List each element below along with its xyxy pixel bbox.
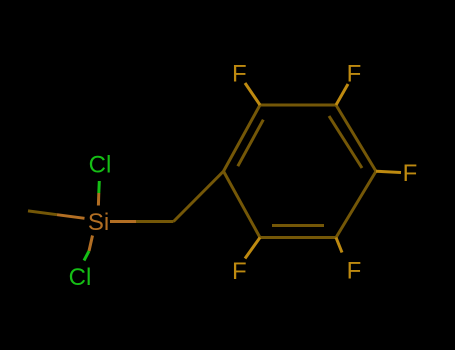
- svg-text:F: F: [232, 258, 247, 285]
- svg-text:F: F: [403, 160, 418, 187]
- svg-text:Cl: Cl: [69, 264, 92, 291]
- svg-text:F: F: [347, 258, 362, 285]
- svg-text:F: F: [232, 61, 247, 88]
- svg-text:F: F: [347, 61, 362, 88]
- svg-text:Cl: Cl: [89, 151, 112, 178]
- svg-text:Si: Si: [88, 209, 109, 236]
